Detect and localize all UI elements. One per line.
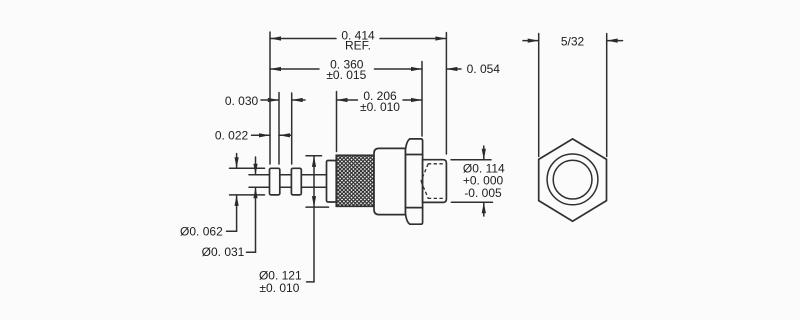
dimension 0.022 arrows xyxy=(252,133,291,137)
dimension 0.054 leader xyxy=(446,67,461,71)
dimension 0.360 line xyxy=(270,67,422,71)
svg-text:REF.: REF. xyxy=(345,39,371,53)
svg-text:±0. 010: ±0. 010 xyxy=(259,281,299,295)
extension line Ø0.121 top xyxy=(306,155,322,157)
svg-text:-0. 005: -0. 005 xyxy=(464,186,502,200)
svg-text:0. 054: 0. 054 xyxy=(467,62,501,76)
ferrule cylinder Ø0.114 xyxy=(423,160,447,203)
collar 2 xyxy=(291,168,301,195)
dimension 0.206 line xyxy=(337,98,423,102)
extension line collar2 left xyxy=(291,93,293,164)
extension line Ø0.062 top xyxy=(230,167,265,169)
svg-text:Ø0. 031: Ø0. 031 xyxy=(202,245,245,259)
extension line hex flat right xyxy=(606,34,608,157)
extension line Ø0.114 top xyxy=(451,159,491,161)
dimension 0.414 line xyxy=(270,36,446,40)
svg-text:Ø0. 062: Ø0. 062 xyxy=(180,224,223,238)
dimension Ø0.062 arrows and leader xyxy=(227,154,239,232)
collar 1 xyxy=(270,168,280,195)
wire pin Ø0.031 xyxy=(249,175,327,188)
svg-text:5/32: 5/32 xyxy=(561,35,585,49)
dimension 0.030 arrows xyxy=(261,98,305,102)
hex end view inner circle xyxy=(553,160,592,199)
extension line hex right xyxy=(421,62,423,137)
extension line Ø0.062 bottom xyxy=(230,194,265,196)
extension line cylinder right face xyxy=(445,33,447,155)
extension line hex flat left xyxy=(538,34,540,157)
extension line knurl left xyxy=(336,92,338,152)
hex end view outer circle xyxy=(547,154,598,205)
extension line Ø0.121 bottom xyxy=(306,206,329,208)
hex end view outline xyxy=(539,139,607,221)
extension line Ø0.114 bottom xyxy=(451,201,492,203)
knurled section xyxy=(336,155,374,206)
dimension Ø0.031 arrows and leader xyxy=(247,157,258,252)
step flange xyxy=(327,161,337,203)
svg-text:0. 022: 0. 022 xyxy=(215,129,249,143)
hex nut side view xyxy=(406,139,423,224)
extension line collar1 left xyxy=(269,32,271,164)
svg-text:±0. 015: ±0. 015 xyxy=(326,68,366,82)
extension line collar1 right xyxy=(278,93,280,165)
svg-text:0. 030: 0. 030 xyxy=(225,94,259,108)
dimension Ø0.114 arrows xyxy=(482,146,486,216)
body cap xyxy=(374,148,406,214)
svg-text:±0. 010: ±0. 010 xyxy=(360,100,400,114)
dimension Ø0.121 line and leader xyxy=(307,156,317,282)
hidden bore lines xyxy=(421,164,445,199)
dimension 5/32 arrows xyxy=(523,39,623,43)
